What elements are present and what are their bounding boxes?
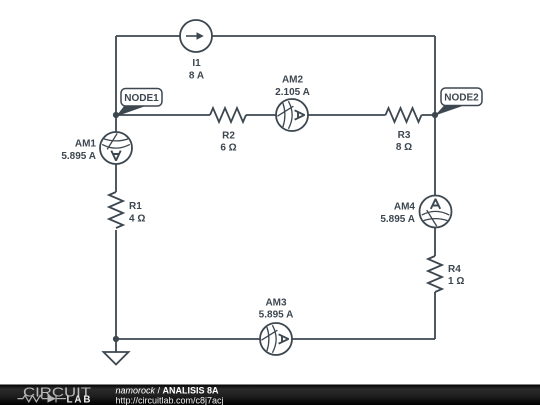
svg-text:I1: I1: [192, 58, 201, 69]
svg-text:R2: R2: [222, 131, 235, 142]
svg-text:http://circuitlab.com/c8j7acj: http://circuitlab.com/c8j7acj: [116, 396, 224, 405]
svg-text:5.895 A: 5.895 A: [259, 310, 294, 321]
svg-text:R3: R3: [398, 130, 411, 141]
svg-text:5.895 A: 5.895 A: [61, 151, 96, 162]
svg-text:AM3: AM3: [265, 298, 287, 309]
svg-text:AM4: AM4: [394, 202, 416, 213]
svg-text:LAB: LAB: [67, 394, 91, 405]
svg-text:namorock / ANALISIS 8A: namorock / ANALISIS 8A: [116, 386, 220, 396]
svg-text:2.105 A: 2.105 A: [275, 87, 310, 98]
svg-text:AM1: AM1: [75, 139, 97, 150]
svg-text:R4: R4: [448, 264, 461, 275]
svg-text:NODE2: NODE2: [444, 93, 479, 104]
svg-text:8 Ω: 8 Ω: [396, 142, 412, 153]
svg-text:1 Ω: 1 Ω: [448, 276, 464, 287]
svg-text:AM2: AM2: [282, 75, 304, 86]
svg-text:NODE1: NODE1: [124, 93, 159, 104]
svg-text:4 Ω: 4 Ω: [129, 214, 145, 225]
svg-text:6 Ω: 6 Ω: [220, 143, 236, 154]
svg-text:5.895 A: 5.895 A: [380, 214, 415, 225]
svg-text:R1: R1: [129, 201, 142, 212]
svg-text:8 A: 8 A: [189, 71, 204, 82]
